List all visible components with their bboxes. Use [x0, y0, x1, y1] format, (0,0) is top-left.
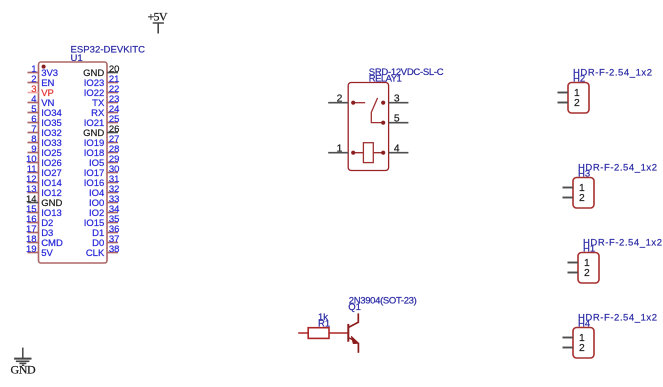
svg-text:4: 4 — [394, 143, 400, 154]
svg-text:38: 38 — [109, 244, 120, 255]
svg-text:3: 3 — [394, 93, 400, 104]
svg-text:2: 2 — [584, 268, 590, 279]
svg-text:Q1: Q1 — [348, 302, 361, 313]
svg-text:5V: 5V — [41, 248, 53, 259]
svg-text:2: 2 — [337, 93, 343, 104]
svg-text:2: 2 — [574, 98, 580, 109]
svg-text:2: 2 — [579, 193, 585, 204]
svg-text:2: 2 — [579, 343, 585, 354]
svg-text:1: 1 — [337, 143, 343, 154]
svg-text:19: 19 — [26, 244, 37, 255]
svg-text:5: 5 — [394, 113, 400, 124]
svg-text:GND: GND — [11, 362, 37, 376]
svg-text:CLK: CLK — [86, 248, 105, 259]
svg-text:+5V: +5V — [148, 10, 168, 24]
